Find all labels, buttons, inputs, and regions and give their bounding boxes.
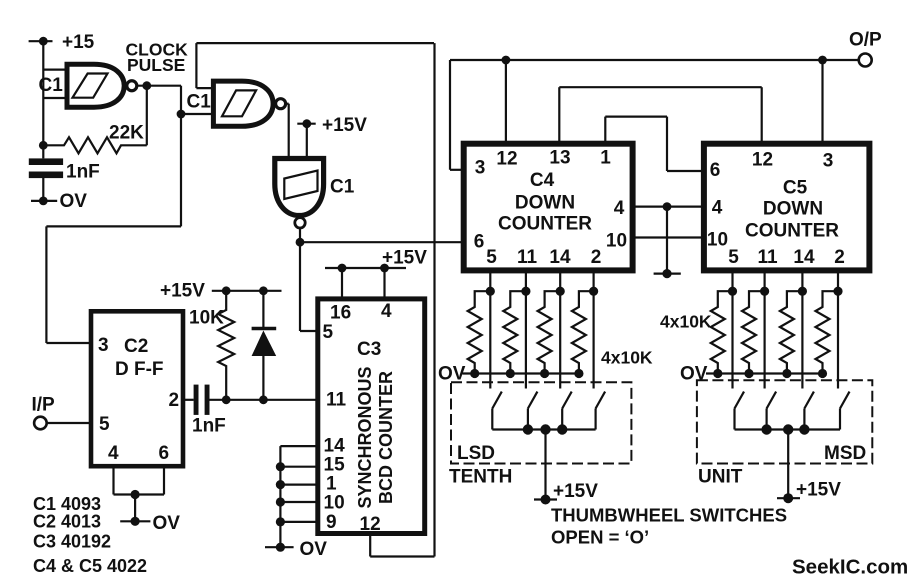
+15V terminal (right group) [777,430,841,504]
+15V terminal (left group) [534,430,598,505]
+15V terminal for gate3 [297,115,367,159]
svg-text:+15V: +15V [796,480,841,501]
svg-text:4: 4 [381,301,392,322]
svg-text:C4: C4 [530,170,555,191]
nand gate U1c C1 vertical (schmitt) [275,159,355,229]
resistor 22K [43,86,147,154]
wire clock to gate2 [136,86,213,114]
svg-text:2: 2 [591,247,602,268]
ground OV (C3 bus) [265,539,327,560]
wire gate3 output to C4 pin6 [300,241,464,243]
+15 supply terminal [29,32,95,53]
svg-text:11: 11 [517,247,538,268]
switch SW1a..d (left group) [492,392,605,430]
svg-text:C2: C2 [124,336,148,357]
svg-text:D F-F: D F-F [115,359,164,380]
ground OV (C2) [120,513,180,534]
svg-text:C5: C5 [783,178,808,199]
svg-text:LSD: LSD [457,443,495,464]
node gate3 output [296,228,305,247]
svg-text:4: 4 [712,198,723,219]
svg-text:15: 15 [324,455,346,476]
svg-text:SeekIC.com: SeekIC.com [792,556,908,579]
svg-text:C4 & C5 4022: C4 & C5 4022 [33,556,147,576]
svg-text:12: 12 [496,149,517,170]
capacitor 1nF (C2 pin2 coupling) [183,385,226,437]
svg-text:+15V: +15V [322,115,367,136]
node clock output [142,81,151,90]
resistor network 4x10K (right group) [660,291,838,373]
svg-text:I/P: I/P [32,395,56,416]
svg-text:4: 4 [108,443,119,464]
svg-text:10K: 10K [189,308,224,329]
wire O/P to C4 pin12 [505,60,507,144]
svg-text:5: 5 [486,247,497,268]
wires C4 bottom pins down [486,270,599,388]
label UNIT / MSD [698,443,866,488]
switch SW2a..d (right group) [735,392,850,430]
svg-text:TENTH: TENTH [449,467,512,488]
input I/P terminal [32,395,92,430]
svg-text:MSD: MSD [824,443,866,464]
svg-text:13: 13 [549,148,570,169]
wire C3 left bus pins 14,15,1,10,9 [276,446,318,547]
wire C4 pin13 to C5 pin12 [559,87,761,144]
svg-text:BCD COUNTER: BCD COUNTER [376,371,396,504]
svg-text:6: 6 [159,443,170,464]
svg-text:COUNTER: COUNTER [498,213,592,234]
svg-text:OV: OV [680,364,708,385]
svg-text:6: 6 [710,160,721,181]
label LSD / TENTH [449,443,512,488]
ground rail OV (left group) [438,364,584,385]
wire gate2 output to gate3 [285,104,289,159]
svg-text:OV: OV [300,539,328,560]
wire gate2 top input from feedback [196,43,213,88]
ground rail OV (right group) [680,364,827,385]
wire C4 pin10 to C5 pin10 [633,236,704,238]
node junction 22K/cap [39,141,48,150]
svg-text:2: 2 [169,390,180,411]
wire switch common rail (left group) [492,424,595,434]
svg-text:+15V: +15V [382,248,427,269]
svg-text:16: 16 [330,303,351,324]
capacitor 1nF (oscillator) [29,158,100,182]
ic C4 down counter box [464,144,633,271]
wire gate3 output to C3 pin5 [300,242,318,331]
svg-text:C1: C1 [330,177,355,198]
svg-text:14: 14 [549,247,571,268]
svg-text:COUNTER: COUNTER [745,221,839,242]
wire pin2 node to C3 pin11 [210,395,318,404]
svg-text:DOWN: DOWN [515,192,575,213]
svg-text:14: 14 [793,247,815,268]
wire gate1 input taps [43,70,67,98]
svg-text:11: 11 [757,247,778,268]
wires C5 bottom pins down [728,270,843,388]
svg-text:9: 9 [326,512,337,533]
label parts list [33,494,147,576]
svg-text:SYNCHRONOUS: SYNCHRONOUS [355,366,375,508]
ground OV (oscillator) [31,191,87,212]
resistor 10K [189,291,234,400]
wire O/P to C5 pin3 [821,60,823,144]
output O/P terminal [450,30,882,67]
terminal stub below pin4 net [654,207,681,279]
svg-text:12: 12 [360,514,381,535]
wire switch common rail (right group) [735,424,841,434]
svg-text:3: 3 [98,335,109,356]
svg-text:10: 10 [606,231,627,252]
svg-text:22K: 22K [109,123,144,144]
label THUMBWHEEL SWITCHES [551,505,787,548]
svg-text:5: 5 [99,414,110,435]
+15V rail for C3 pins 16 and 4 [325,248,427,299]
wire left vertical rail of oscillator [42,41,44,201]
dashed box MSD thumbwheel [697,380,872,463]
svg-text:C1: C1 [187,92,212,113]
ic C5 down counter box [704,144,870,271]
svg-text:1nF: 1nF [192,416,226,437]
svg-text:UNIT: UNIT [698,467,743,488]
ic C2 D flip-flop box [91,311,183,466]
wire C4 pin1 to C5 pin6 [605,117,704,171]
svg-text:OV: OV [60,191,88,212]
svg-text:THUMBWHEEL SWITCHES: THUMBWHEEL SWITCHES [551,505,787,526]
node gate2 input junction [177,110,186,119]
dashed box LSD thumbwheel [451,382,631,463]
svg-text:2: 2 [834,247,845,268]
svg-text:12: 12 [752,150,773,171]
svg-text:5: 5 [323,322,334,343]
svg-text:PULSE: PULSE [127,55,185,75]
resistor network 4x10K (left group) [468,291,653,373]
svg-text:14: 14 [324,436,346,457]
svg-text:DOWN: DOWN [763,199,823,220]
svg-text:OPEN = ‘O’: OPEN = ‘O’ [551,527,649,548]
svg-text:3: 3 [823,151,834,172]
ic C3 synchronous BCD counter box [318,299,425,535]
svg-text:4: 4 [614,198,625,219]
nand gate U1a C1 (schmitt) [39,64,137,107]
svg-text:3: 3 [475,158,486,179]
+15V rail for 10K and diode [160,281,282,302]
svg-text:1: 1 [600,148,611,169]
svg-text:4x10K: 4x10K [601,348,653,368]
wire C2 pins 4 and 6 to OV [114,466,165,521]
svg-text:C2 4013: C2 4013 [33,512,101,532]
svg-text:1: 1 [326,474,337,495]
svg-text:O/P: O/P [849,30,882,51]
wire O/P to C4 pin3 [450,60,464,170]
svg-text:C1: C1 [39,75,64,96]
svg-text:10: 10 [324,493,345,514]
wire C4 pin4 to C5 pin4 [633,202,704,211]
svg-text:6: 6 [474,232,485,253]
svg-text:1nF: 1nF [66,162,100,183]
wire feedback to C2 pin3 [46,114,181,343]
svg-text:11: 11 [326,390,347,411]
nand gate U1b C1 (schmitt) [187,81,286,126]
diode D1 [252,291,277,400]
svg-text:C3: C3 [357,339,381,360]
svg-text:+15V: +15V [553,481,598,502]
wire feedback loop from C3 pin12 [196,43,434,556]
svg-text:C3 40192: C3 40192 [33,532,111,552]
label CLOCK PULSE [126,40,189,76]
svg-text:4x10K: 4x10K [660,312,712,332]
svg-text:10: 10 [707,230,728,251]
svg-text:+15: +15 [62,32,95,53]
svg-text:+15V: +15V [160,281,205,302]
svg-text:5: 5 [728,247,739,268]
svg-text:OV: OV [153,513,181,534]
